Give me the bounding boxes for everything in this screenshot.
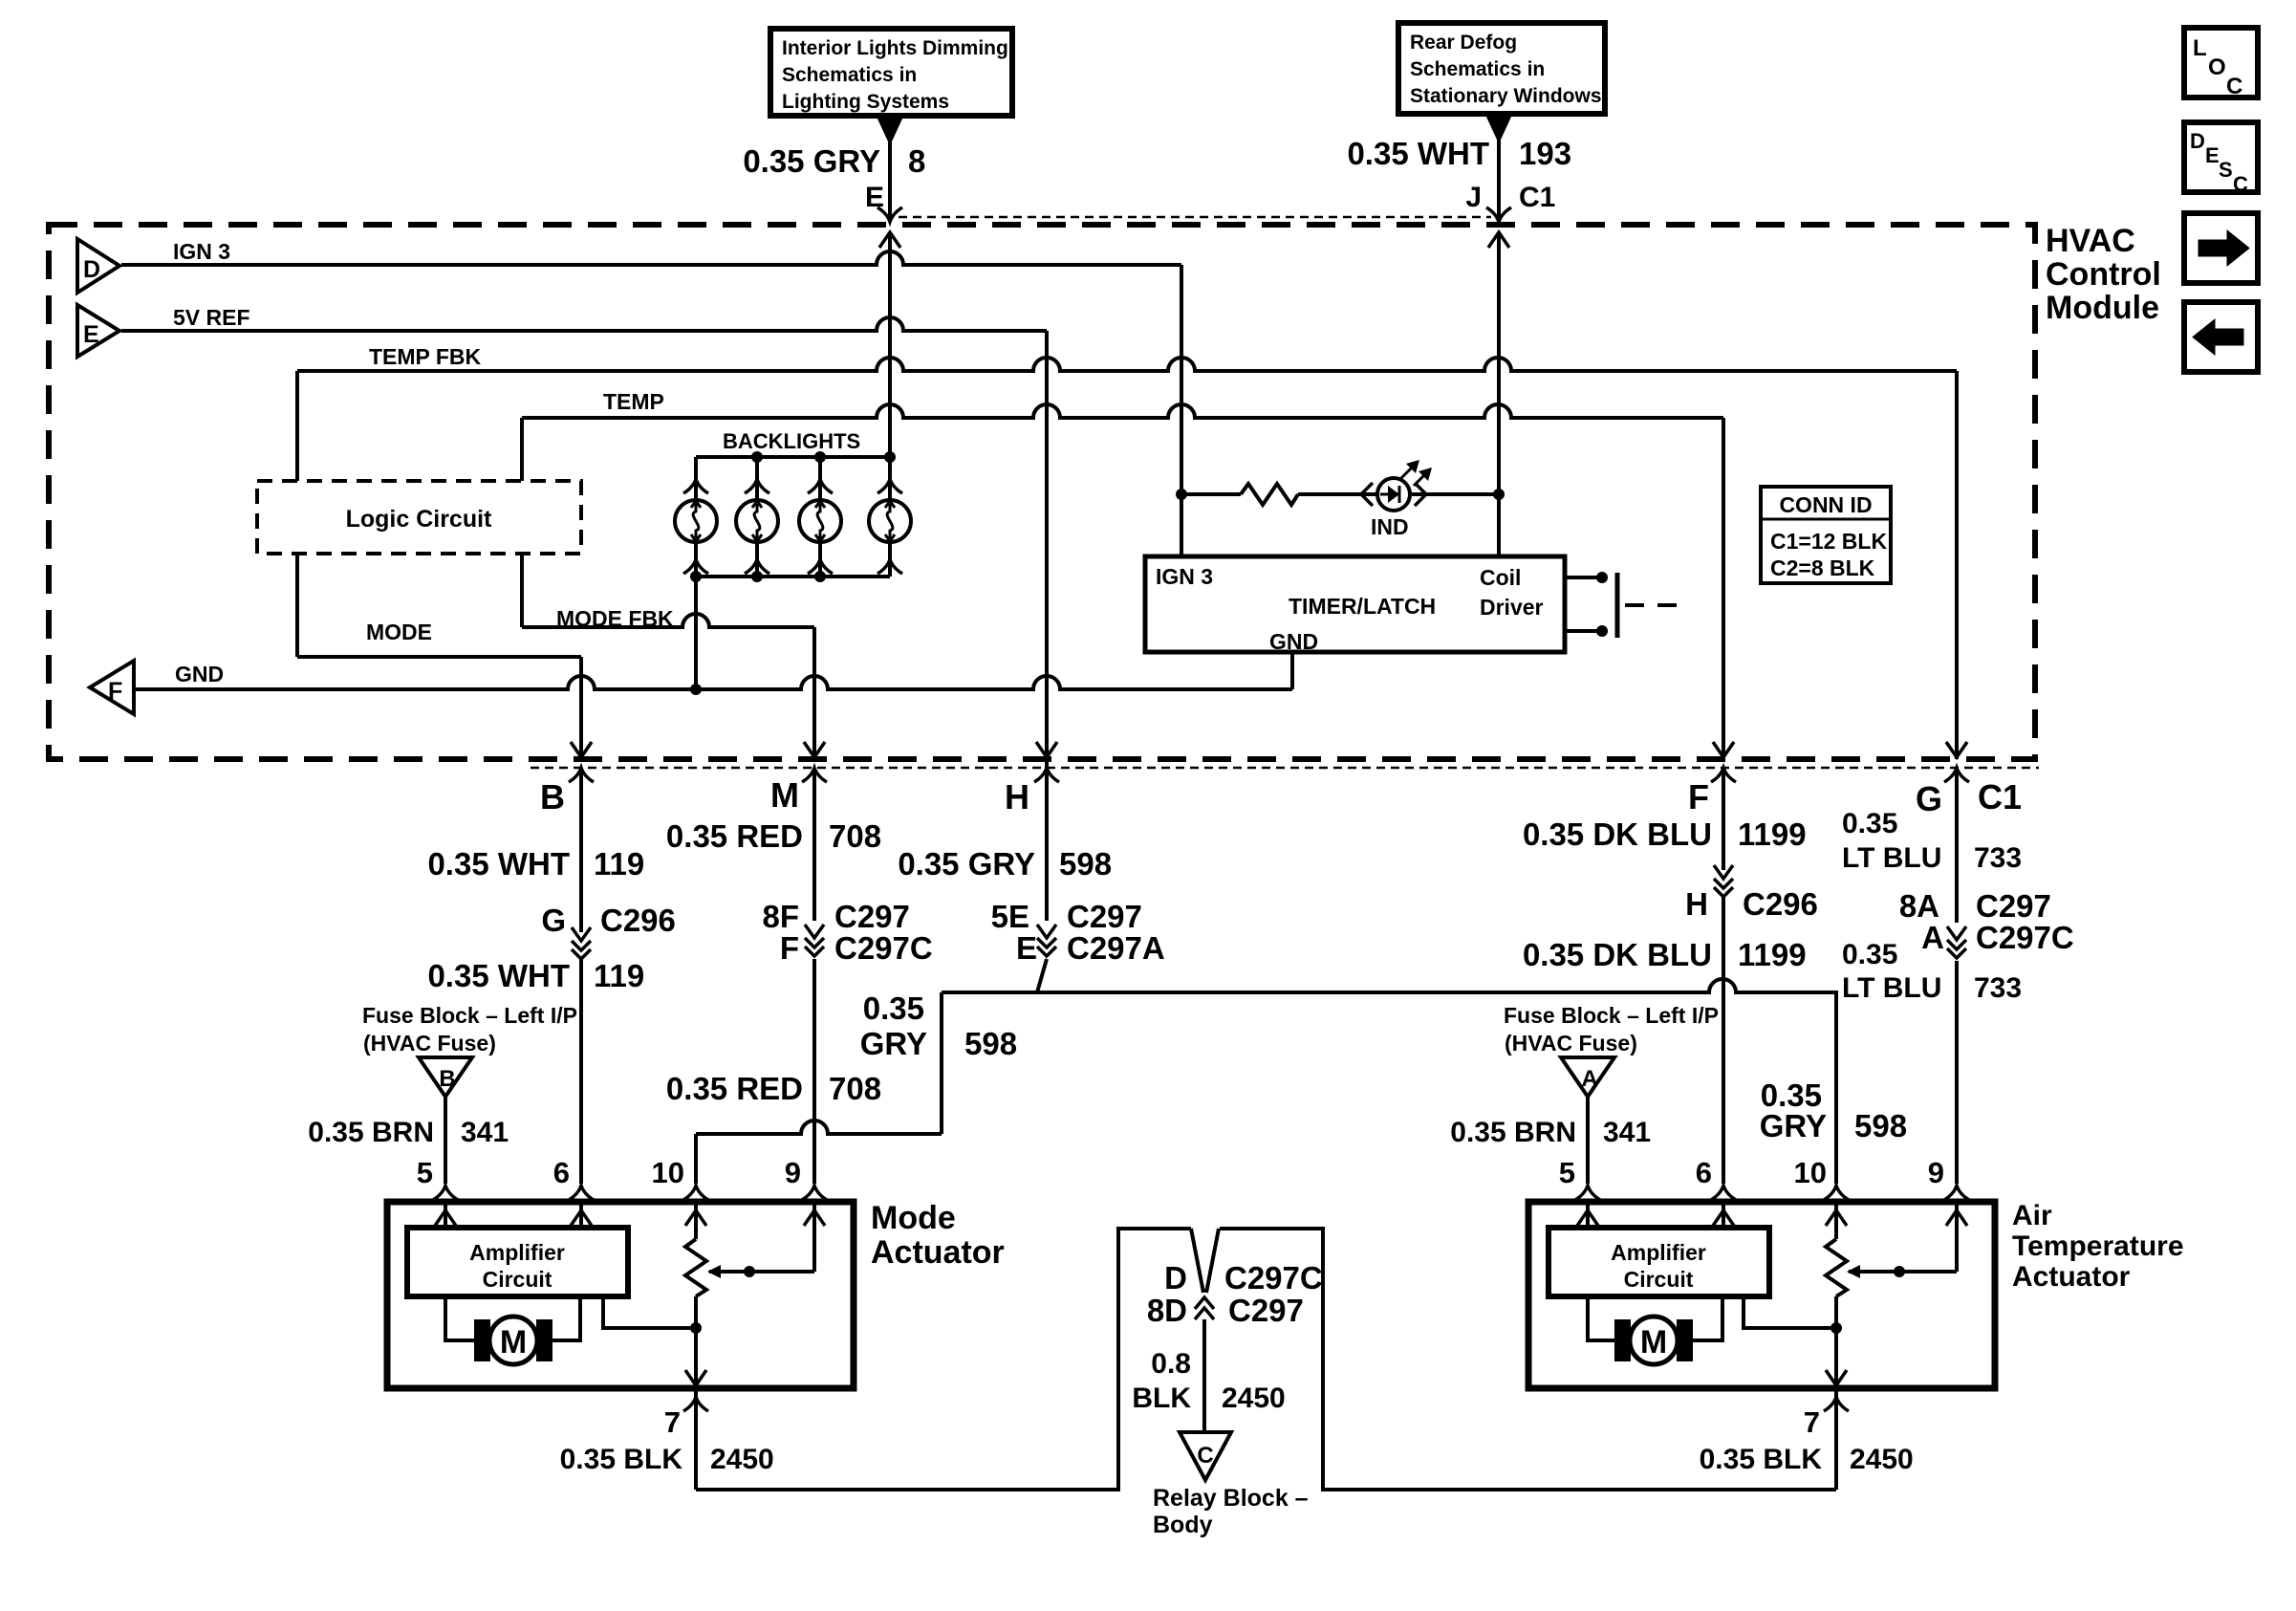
svg-text:9: 9 [1928,1156,1944,1189]
backlight lamp 3 bulb [799,500,841,542]
backlight lamp 3 top lead [818,457,822,500]
relay triangle C [1180,1432,1231,1480]
svg-text:0.35 BRN: 0.35 BRN [308,1117,434,1148]
svg-text:C: C [1197,1443,1213,1469]
svg-text:F: F [108,678,122,705]
svg-text:2450: 2450 [1222,1382,1286,1414]
wire 0.35 RED 708 upper [812,768,816,921]
svg-text:C297: C297 [1228,1293,1304,1328]
backlight lamp 1 top lead [694,457,698,500]
wire 0.8 BLK 2450 [1202,1319,1206,1432]
svg-text:0.35 RED: 0.35 RED [666,1071,803,1106]
junction dot return lamp 2 [751,571,763,582]
svg-text:O: O [2208,54,2226,80]
motor feed right (air) [1693,1296,1722,1340]
wire GND [134,676,1292,689]
Air Temperature Actuator box [1528,1202,1995,1388]
wire IGN 3 [121,251,1181,265]
svg-text:Stationary Windows: Stationary Windows [1410,85,1602,107]
switch stub upper dot [1596,572,1608,583]
note box: Interior Lights Dimming Schematics in Lighting Systems [770,29,1012,116]
svg-text:Module: Module [2046,290,2159,326]
bottom connector fork pin G [1944,768,1969,782]
svg-text:HVAC: HVAC [2046,223,2135,259]
backlight lamp 3 bottom lead [818,542,822,577]
svg-text:598: 598 [1854,1108,1907,1143]
wire logic to MODE [295,554,299,657]
svg-text:Actuator: Actuator [2012,1261,2131,1293]
svg-text:8D: 8D [1147,1293,1187,1328]
svg-text:0.35 GRY: 0.35 GRY [898,846,1035,882]
svg-text:C1: C1 [1978,777,2022,816]
wire IGN3 drop to timer [1180,265,1183,556]
module exit arrow pin H [1036,742,1057,757]
backlight return wire to GND [694,577,698,689]
backlight lamp 2 bottom lead [755,542,759,577]
junction dot bus lamp 4 [884,451,896,463]
motor circle (air) [1630,1317,1678,1364]
pin 6 arrow (mode) [571,1210,592,1226]
wire TEMP FBK drop to logic circuit [295,371,299,481]
svg-text:708: 708 [829,1071,881,1106]
connector V D/C297C [1191,1229,1219,1293]
junction dot backlight return to GND [690,684,702,695]
svg-text:119: 119 [594,958,644,993]
svg-text:C297A: C297A [1067,930,1165,966]
svg-text:Circuit: Circuit [1624,1267,1694,1292]
pot bottom wire (mode) [694,1296,698,1385]
pot wire pin10 (air) [1834,1205,1838,1239]
wire J to Rear Defog box [1497,140,1501,222]
junction dot pot bottom (mode) [690,1322,702,1334]
CONN ID header divider [1761,518,1891,521]
svg-text:Temperature: Temperature [2012,1230,2184,1262]
IND LED light arrow 2 [1414,472,1427,486]
wire indicator left segment [1181,492,1241,496]
svg-text:0.35 BRN: 0.35 BRN [1450,1117,1576,1148]
backlight lamp 4 filament [887,504,893,538]
wire TEMP FBK drop to pin G [1955,371,1959,759]
wire MODE FBK drop to pin M [812,627,816,759]
svg-text:A: A [1921,920,1944,955]
svg-text:B: B [540,777,565,816]
junction dot bus lamp 2 [751,451,763,463]
wire TEMP drop to logic circuit [520,418,524,481]
svg-text:Amplifier: Amplifier [469,1240,565,1265]
arrow E into module [879,232,900,248]
svg-text:341: 341 [461,1117,509,1148]
svg-text:1199: 1199 [1738,937,1807,972]
connector fork pin 6 mode [569,1186,594,1200]
backlight lamp 4 bottom lead [888,542,892,577]
wire J rear defog feed into module [1497,232,1501,556]
svg-text:MODE: MODE [366,620,432,644]
backlight lamp 2 bulb [736,500,778,542]
svg-text:C296: C296 [600,903,676,938]
pot resistor (air) [1826,1239,1847,1296]
svg-text:A: A [1581,1066,1597,1092]
backlight return bus [696,575,890,578]
arrow J into module [1488,232,1509,248]
svg-text:7: 7 [1804,1405,1820,1439]
backlight lamp 3 filament [817,504,823,538]
motor brush left (air) [1614,1319,1631,1361]
svg-text:2450: 2450 [710,1444,774,1475]
connector triangle D (IGN 3 input) [77,239,119,293]
backlight lamp 4 top lead [888,457,892,500]
motor feed right (mode) [552,1296,580,1340]
motor feed left (air) [1588,1296,1614,1340]
backlight lamp 4 bulb [869,500,911,542]
svg-text:M: M [770,775,799,815]
svg-text:C297C: C297C [1224,1260,1323,1295]
icon box arrow left [2184,302,2258,372]
wire GRY 598 horizontal bus [942,979,1838,992]
connector fork pin 5 air [1575,1186,1600,1200]
wire TEMP drop to pin F [1722,418,1725,759]
wire MODE [297,655,581,659]
svg-text:D: D [83,256,100,283]
connector fork J at C1 [1486,207,1511,222]
svg-text:5: 5 [1559,1156,1575,1189]
junction dot wiper (mode) [744,1266,755,1277]
note box: Rear Defog Schematics in Stationary Windows [1398,23,1605,114]
svg-text:708: 708 [829,818,881,854]
connector C296 H [1714,865,1733,879]
svg-text:C: C [2233,172,2248,196]
svg-text:10: 10 [1794,1156,1827,1189]
wire MODE drop to pin B [579,657,583,759]
wire logic to MODE FBK [520,554,524,627]
svg-text:GRY: GRY [1760,1108,1827,1143]
IND LED circle [1377,478,1410,511]
svg-text:TIMER/LATCH: TIMER/LATCH [1289,594,1436,619]
svg-text:GND: GND [1269,629,1318,654]
connector fork pin 9 air [1944,1186,1969,1200]
svg-text:6: 6 [553,1156,570,1189]
wire 0.35 GRY 598 upper [1045,768,1049,921]
connector fork pin 10 mode [683,1186,708,1200]
pin 5 stub into amplifier (air) [1586,1205,1590,1228]
pot bottom wire (air) [1834,1296,1838,1385]
motor brush left (mode) [474,1319,490,1361]
connector chevrons 8D/C297 [1195,1297,1214,1309]
svg-text:F: F [1688,777,1709,816]
svg-text:5: 5 [417,1156,433,1189]
wire jog E-C297A to GRY bus [1037,959,1047,992]
wire 0.35 RED 708 lower [812,959,816,1184]
svg-text:8A: 8A [1899,888,1939,924]
connector fork pin 7 (mode) [683,1397,708,1411]
svg-text:Schematics in: Schematics in [1410,58,1545,80]
junction dot pot bottom (air) [1830,1322,1842,1334]
IND LED bracket right [1415,483,1426,506]
svg-text:2450: 2450 [1850,1444,1914,1475]
svg-text:TEMP: TEMP [603,389,664,414]
svg-text:8F: 8F [762,899,799,934]
switch bar [1615,573,1620,638]
svg-text:598: 598 [1059,846,1112,882]
svg-text:C297: C297 [1976,888,2051,924]
svg-text:0.35 WHT: 0.35 WHT [427,958,570,993]
svg-text:J: J [1465,182,1482,213]
svg-text:Actuator: Actuator [871,1234,1005,1271]
pin 5 arrow (air) [1577,1210,1598,1226]
svg-text:E: E [1016,930,1037,966]
wire resistor to IND LED [1298,492,1377,496]
backlight lamp 2 top lead [755,457,759,500]
connector fork pin 10 air [1824,1186,1849,1200]
svg-text:0.35: 0.35 [1842,808,1897,839]
pin 5 arrow (mode) [435,1210,456,1226]
connector fork pin 7 (air) [1824,1397,1849,1411]
svg-text:C1: C1 [1519,182,1555,213]
backlight lamp 1 top connector [683,479,708,493]
svg-text:CONN ID: CONN ID [1779,492,1872,517]
svg-text:H: H [1685,886,1708,922]
pin 7 wire below box (air) [1834,1388,1838,1490]
pin 9 arrow (air) [1946,1210,1967,1226]
wire 5V REF [121,317,1047,331]
motor feed left (mode) [445,1296,474,1340]
svg-text:0.35 WHT: 0.35 WHT [427,846,570,882]
wire 5V REF drop to pin H [1045,331,1049,921]
svg-text:C297: C297 [1067,899,1142,934]
svg-text:B: B [439,1066,455,1092]
TIMER/LATCH box [1145,556,1565,652]
timer GND wire down [1290,652,1294,689]
svg-text:D: D [1164,1260,1187,1295]
svg-text:0.35: 0.35 [863,991,924,1026]
switch stub lower dot [1596,625,1608,637]
junction dot defog at indicator [1493,489,1505,500]
Logic Circuit dashed box [257,481,581,554]
wire TEMP [522,404,1723,418]
svg-text:Control: Control [2046,256,2161,293]
svg-text:Amplifier: Amplifier [1611,1240,1706,1265]
connector fork pin 5 mode [433,1186,458,1200]
backlight lamp 4 bottom connector [877,559,902,574]
svg-text:Schematics in: Schematics in [782,64,917,86]
wire GRY 598 lower horizontal [696,1121,942,1134]
svg-text:Logic Circuit: Logic Circuit [346,506,492,533]
svg-text:Interior Lights Dimming: Interior Lights Dimming [782,37,1008,59]
connector fork pin 6 air [1711,1186,1736,1200]
svg-text:F: F [780,930,799,966]
wire 0.35 BRN 341 right [1586,1097,1590,1184]
wire 0.35 LT BLU 733 upper [1955,768,1959,923]
arrow down to pin7 (air) [1826,1370,1847,1385]
pin 5 stub into amplifier (mode) [444,1205,447,1228]
ground run mode actuator [696,1229,1191,1490]
svg-text:IND: IND [1371,514,1409,539]
bottom connector fork pin H [1034,768,1059,782]
svg-text:C296: C296 [1743,886,1818,922]
svg-text:341: 341 [1603,1117,1651,1148]
svg-text:C297C: C297C [1976,920,2074,955]
wire GRY 598 right drop to pin 10 air [1834,992,1838,1184]
svg-text:Air: Air [2012,1200,2052,1231]
pin 6 stub into amplifier (air) [1722,1205,1725,1228]
pot resistor (mode) [685,1239,706,1296]
connector C297 8F/F [805,925,824,938]
backlight lamp 1 bulb [675,500,717,542]
icon box DESC [2184,122,2258,192]
wire GRY 598 drop to pin 10 mode [694,1134,698,1184]
svg-text:G: G [1916,779,1942,818]
pin 6 stub into amplifier (mode) [579,1205,583,1228]
svg-text:8: 8 [908,143,925,179]
backlight lamp 4 top connector [877,479,902,493]
connector triangle E (5V REF input) [77,305,119,357]
connector fork E at C1 [877,207,902,222]
svg-text:M: M [1640,1324,1667,1361]
motor circle (mode) [489,1317,537,1364]
module exit arrow pin M [804,742,825,757]
svg-text:0.35 DK BLU: 0.35 DK BLU [1523,816,1712,852]
wiper wire pin9 (mode) [812,1205,816,1272]
backlight lamp 1 filament [693,504,699,538]
fuse triangle B [419,1057,472,1097]
wiper arrowhead (air) [1847,1265,1860,1278]
svg-text:E: E [2205,143,2220,167]
junction dot return lamp 1 [690,571,702,582]
svg-text:733: 733 [1974,842,2022,874]
wire 0.35 LT BLU 733 lower [1955,961,1959,1184]
svg-text:9: 9 [785,1156,801,1189]
module exit arrow pin F [1713,742,1734,757]
svg-text:0.35 DK BLU: 0.35 DK BLU [1523,937,1712,972]
arrow down to pin7 (mode) [685,1370,706,1385]
amp output to pot (air) [1744,1296,1830,1328]
svg-text:Driver: Driver [1480,595,1544,620]
backlight lamp 3 top connector [808,479,833,493]
pin 7 wire below box (mode) [694,1388,698,1490]
wire GRY 598 left drop [940,992,943,1134]
svg-text:GRY: GRY [860,1026,927,1061]
pin 9 arrow (mode) [804,1210,825,1226]
svg-text:0.35 RED: 0.35 RED [666,818,803,854]
bottom connector fork pin B [569,768,594,782]
svg-text:IGN 3: IGN 3 [173,239,230,264]
icon box LOC [2184,28,2258,98]
svg-text:0.8: 0.8 [1151,1348,1191,1380]
wire TEMP FBK [297,358,1957,371]
svg-text:C: C [2226,74,2242,99]
motor brush right (air) [1677,1319,1693,1361]
motor brush right (mode) [536,1319,552,1361]
pot wire pin10 (mode) [694,1205,698,1239]
connector C296 G [572,927,591,941]
svg-text:C2=8 BLK: C2=8 BLK [1770,555,1875,580]
svg-text:119: 119 [594,846,644,882]
wiper arrowhead (mode) [707,1265,721,1278]
svg-text:5V REF: 5V REF [173,305,250,330]
svg-text:(HVAC Fuse): (HVAC Fuse) [363,1031,496,1056]
amp output to pot (mode) [603,1296,690,1328]
ground run air actuator [1220,1229,1836,1490]
svg-text:0.35 BLK: 0.35 BLK [1700,1444,1823,1475]
svg-text:M: M [500,1324,527,1361]
connector C1 thin dashed line (top) [899,216,1491,219]
svg-text:Lighting Systems: Lighting Systems [782,91,949,113]
svg-text:BACKLIGHTS: BACKLIGHTS [723,429,860,453]
bottom connector fork pin F [1711,768,1736,782]
connector triangle F (GND output) [90,661,134,714]
svg-text:C297: C297 [834,899,910,934]
svg-text:7: 7 [664,1405,681,1439]
svg-text:6: 6 [1696,1156,1712,1189]
Mode Actuator box [387,1202,854,1388]
svg-text:G: G [541,903,566,938]
HVAC Control Module dashed boundary [49,225,2035,759]
wire 0.35 WHT 119 upper [579,768,583,932]
junction dot wiper (air) [1894,1266,1905,1277]
IND LED diode [1380,493,1388,496]
backlight lamp 2 top connector [745,479,769,493]
svg-text:LT BLU: LT BLU [1842,972,1941,1004]
svg-text:BLK: BLK [1132,1382,1191,1414]
wiper wire pin9 (air) [1955,1205,1959,1272]
pin 10 arrow (air) [1826,1210,1847,1226]
svg-text:Coil: Coil [1480,565,1521,590]
junction dot bus lamp 3 [814,451,826,463]
svg-text:TEMP FBK: TEMP FBK [369,344,482,369]
svg-text:E: E [83,321,99,348]
svg-text:Rear Defog: Rear Defog [1410,32,1517,54]
backlight lamp 1 bottom lead [694,542,698,577]
svg-text:Fuse Block – Left I/P: Fuse Block – Left I/P [362,1003,577,1028]
Amplifier Circuit box (air) [1549,1228,1769,1296]
svg-text:L: L [2193,35,2207,61]
icon right arrow [2199,230,2249,266]
svg-text:Circuit: Circuit [483,1267,552,1292]
icon box arrow right [2184,213,2258,283]
CONN ID table box [1761,487,1891,583]
pin 10 arrow (mode) [685,1210,706,1226]
svg-text:C297C: C297C [834,930,933,966]
backlight lamp 2 bottom connector [745,559,769,574]
svg-text:10: 10 [652,1156,684,1189]
svg-text:5E: 5E [991,899,1029,934]
Amplifier Circuit box (mode) [407,1228,628,1296]
module exit arrow pin G [1946,742,1967,757]
connector C1 thin dashed line (bottom) [531,767,2039,770]
svg-text:Fuse Block – Left I/P: Fuse Block – Left I/P [1504,1003,1719,1028]
wire H continues below GND [1045,689,1049,759]
svg-text:GND: GND [175,662,224,686]
svg-text:193: 193 [1519,136,1571,171]
pin 6 arrow (air) [1713,1210,1734,1226]
switch stub upper [1565,576,1602,579]
resistor in indicator branch [1241,484,1298,505]
backlight lamp 2 filament [754,504,760,538]
backlight lamp 3 bottom connector [808,559,833,574]
backlight lamp 1 bottom connector [683,559,708,574]
IND LED bracket left [1361,483,1373,506]
svg-text:Relay Block –: Relay Block – [1153,1485,1309,1512]
module exit arrow pin B [571,742,592,757]
switch stub lower [1565,629,1602,633]
svg-text:D: D [2190,129,2205,153]
switch actuator dashes [1625,603,1686,607]
connector C297 8A/A [1947,926,1966,940]
svg-text:Body: Body [1153,1512,1213,1538]
junction dot IGN3 at indicator [1176,489,1187,500]
svg-text:S: S [2219,158,2233,182]
wire E feed into module [888,232,892,457]
wire E to Interior Lights box [888,142,892,222]
